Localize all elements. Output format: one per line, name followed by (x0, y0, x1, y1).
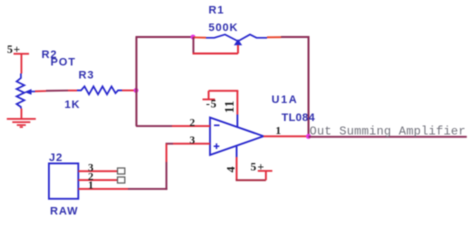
wire R3 to node (122, 89, 136, 91)
svg-text:500K: 500K (209, 22, 239, 34)
pin 3 wire (non-inverting input) (166, 143, 211, 145)
wire left vertical (node to pin2 corner) (135, 37, 137, 126)
R1 labels (209, 5, 239, 35)
U1A labels (272, 94, 316, 124)
R2 labels (42, 49, 76, 69)
resistor R3 (77, 86, 122, 94)
wire top rail left (136, 36, 194, 38)
svg-text:5+: 5+ (251, 162, 266, 174)
pin 4 wire and power 5+ (236, 147, 273, 181)
potentiometer R1 (206, 35, 267, 46)
pin 2 wire (inverting input) (136, 125, 210, 127)
svg-text:2: 2 (190, 117, 196, 129)
svg-text:4: 4 (224, 167, 238, 173)
J2 pin 2 stub and terminal (78, 177, 125, 183)
wire output to right (309, 136, 467, 138)
svg-text:R1: R1 (209, 5, 225, 17)
svg-text:1: 1 (276, 125, 282, 137)
pin 1 output wire (264, 135, 309, 137)
svg-text:RAW: RAW (50, 206, 78, 218)
svg-text:R3: R3 (79, 70, 95, 82)
wire right vertical (feedback down to output) (308, 36, 310, 136)
junction node at R1 left (191, 35, 196, 40)
svg-text:1K: 1K (65, 99, 81, 111)
op-amp U1A triangle (210, 118, 264, 156)
svg-text:3: 3 (190, 135, 196, 147)
svg-text:U1A: U1A (272, 94, 299, 106)
J2 labels (49, 152, 78, 218)
wire R1 wiper loop (193, 37, 239, 54)
junction node at R3 / feedback (134, 88, 139, 93)
J2 pin 3 stub and terminal (78, 168, 125, 174)
wire R1 right to top-right corner (267, 36, 309, 38)
potentiometer R2 (17, 74, 35, 109)
wire pot bottom to ground (21, 109, 23, 119)
svg-text:TL084: TL084 (282, 112, 316, 124)
pin 11 wire and power -5 (203, 91, 239, 128)
connector J2 (49, 163, 78, 198)
svg-text:J2: J2 (49, 152, 63, 164)
svg-text:1: 1 (88, 179, 94, 191)
power +5 top-left (7, 44, 29, 74)
wire pot wiper to R3 (35, 90, 77, 93)
J2 pin 1 wire to op-amp pin 3 (78, 144, 167, 190)
R3 labels (65, 70, 95, 112)
svg-text:Out Summing Amplifier: Out Summing Amplifier (310, 125, 466, 139)
svg-text:POT: POT (51, 57, 76, 69)
svg-text:11: 11 (223, 100, 237, 113)
svg-text:-5: -5 (206, 99, 217, 111)
ground (7, 118, 36, 128)
junction output node (306, 134, 311, 139)
wire node to R1 left lead (193, 36, 206, 38)
